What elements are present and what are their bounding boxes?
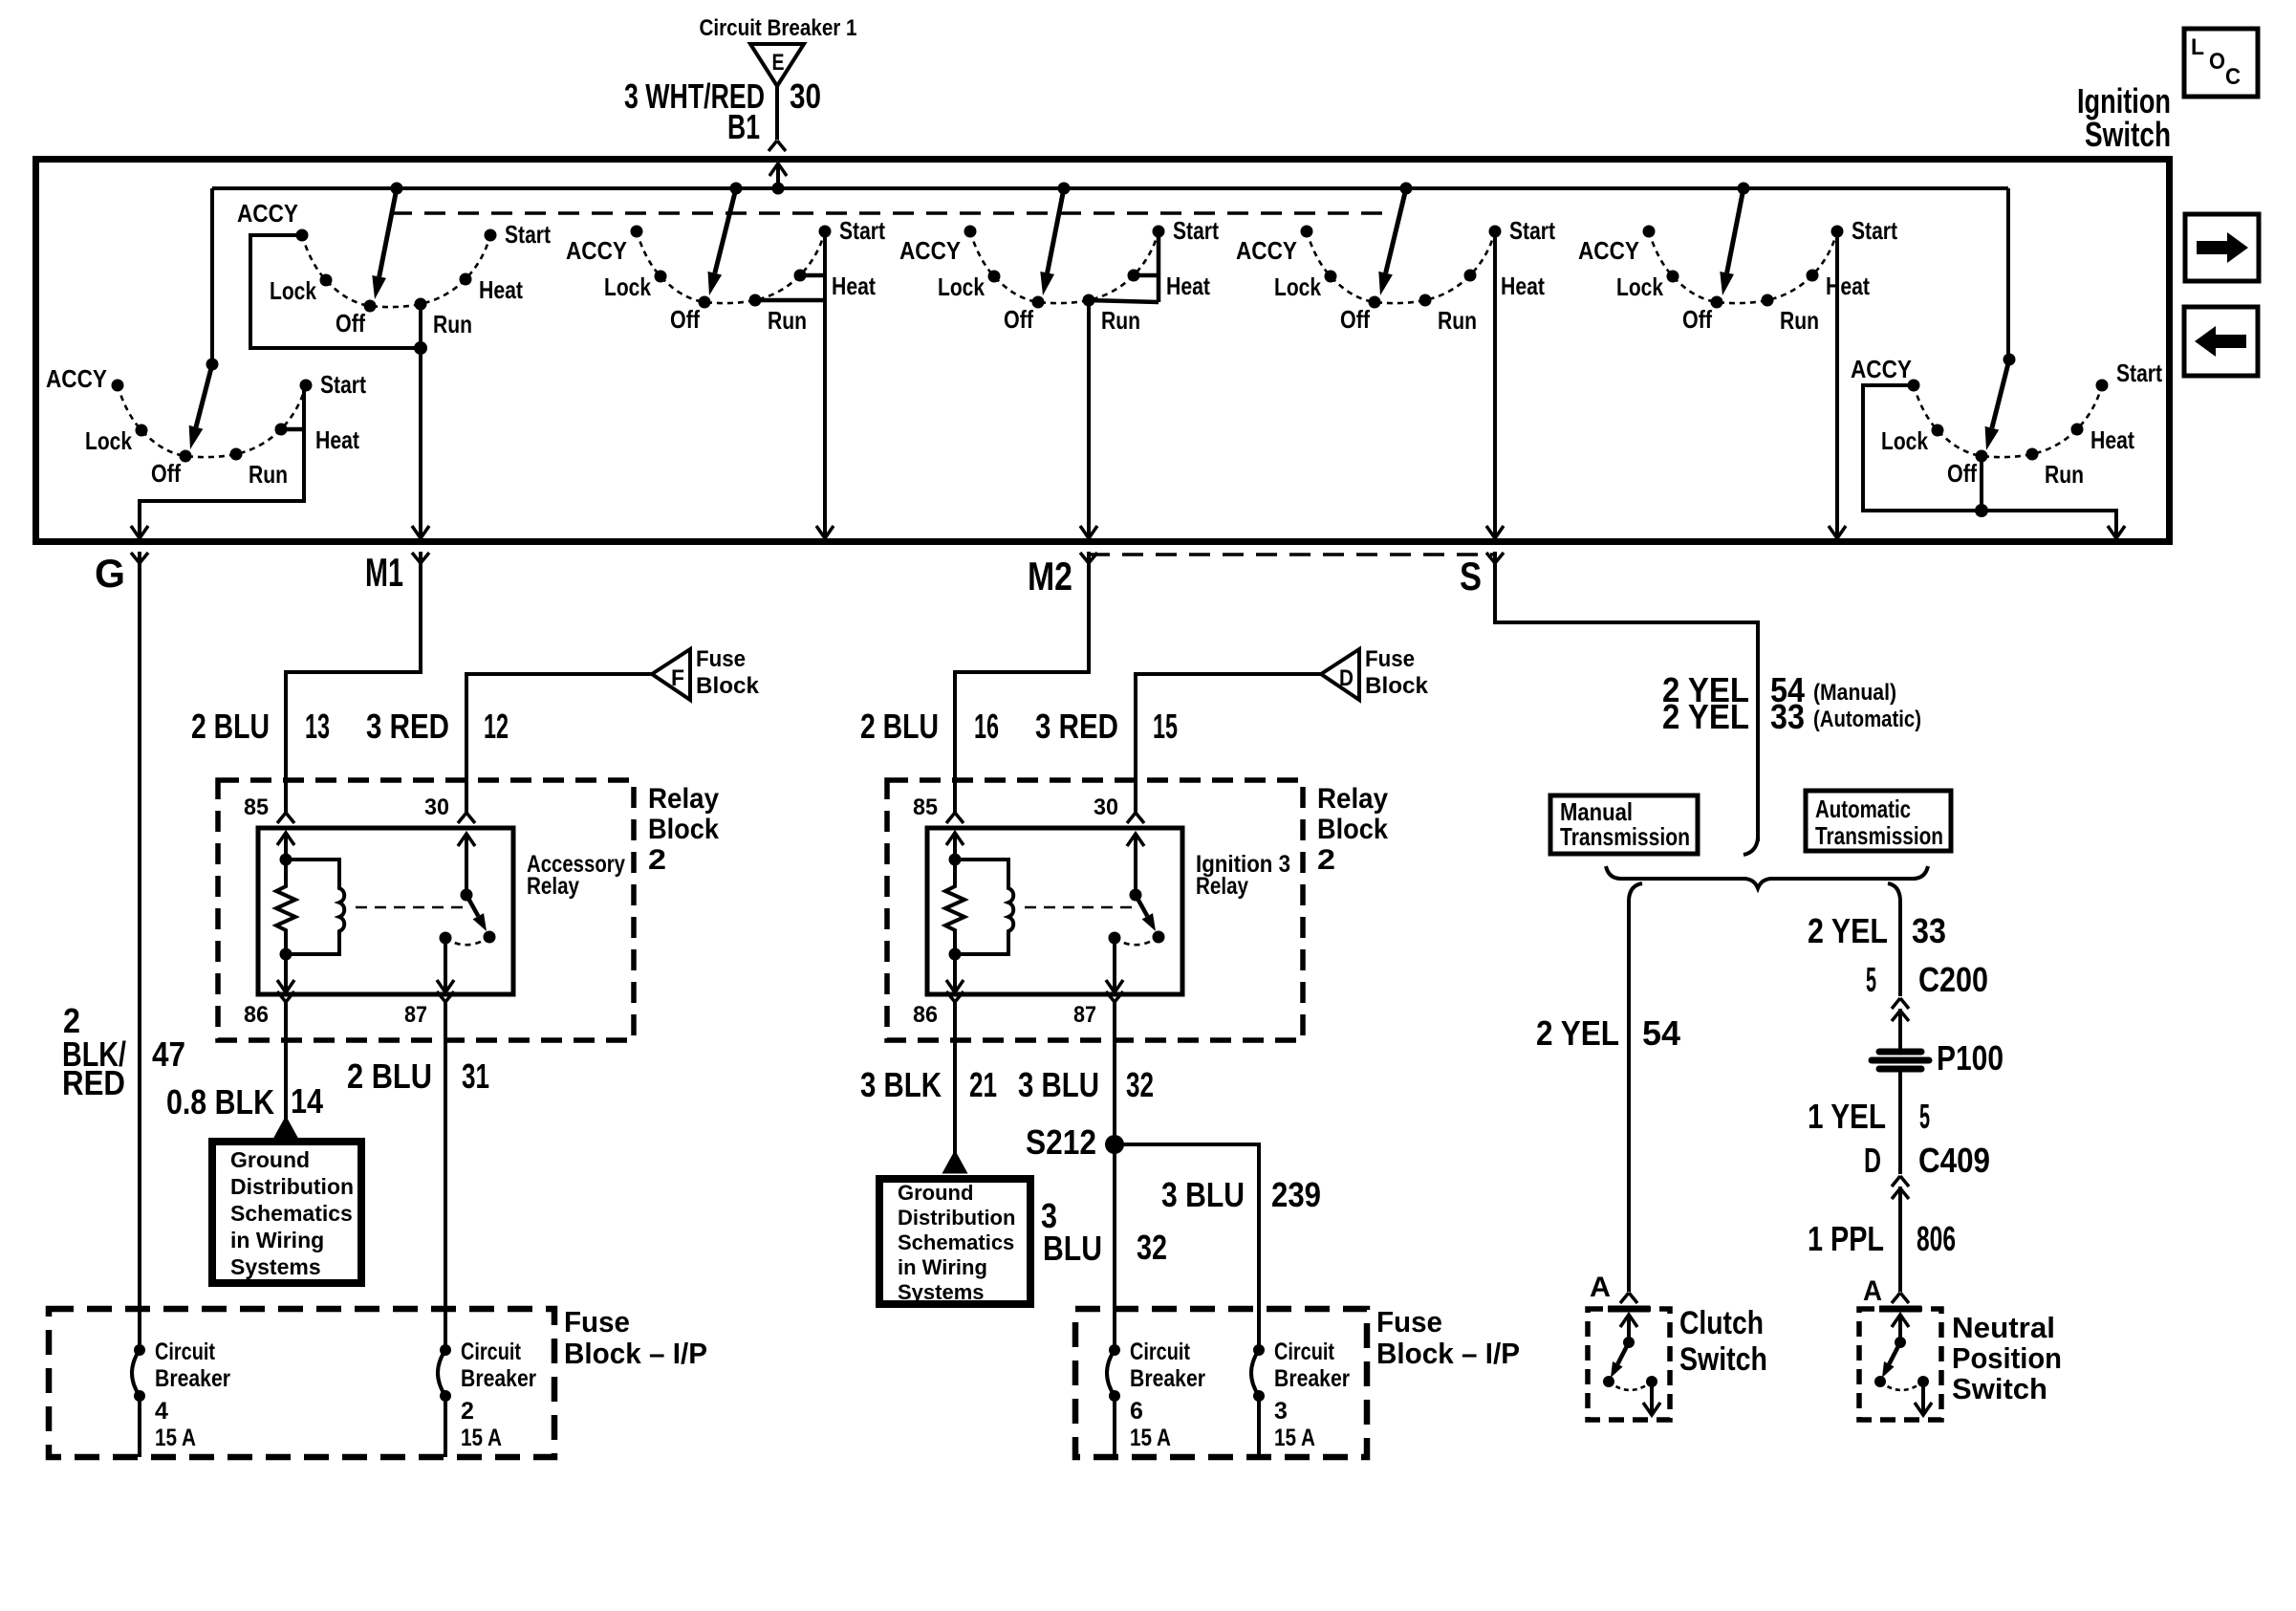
svg-text:Run: Run <box>1438 306 1477 335</box>
switch 4 bottom tick to run <box>1089 300 1159 302</box>
svg-text:in Wiring: in Wiring <box>898 1255 987 1279</box>
svg-text:15 A: 15 A <box>155 1425 196 1451</box>
svg-text:F: F <box>671 665 684 691</box>
svg-text:30: 30 <box>424 795 449 820</box>
svg-text:Relay: Relay <box>648 783 719 815</box>
svg-text:Block: Block <box>1317 814 1388 845</box>
svg-text:Fuse: Fuse <box>564 1305 630 1339</box>
switch 5 dashed arc <box>1307 231 1495 303</box>
svg-text:Relay: Relay <box>1196 873 1248 900</box>
svg-text:Fuse: Fuse <box>696 646 746 672</box>
wire 86b to ground <box>953 1002 957 1154</box>
svg-text:M2: M2 <box>1028 554 1072 599</box>
svg-text:15 A: 15 A <box>1274 1425 1315 1451</box>
ignition 3 relay pin 30 chevron and label <box>1127 813 1144 823</box>
switch 7 output arrowhead <box>2108 526 2125 538</box>
svg-text:Heat: Heat <box>2090 425 2134 454</box>
switch 2 position dots <box>296 229 497 313</box>
switch 6 wiper arrow source dot <box>1738 183 1750 195</box>
svg-text:Systems: Systems <box>898 1280 985 1304</box>
svg-text:A: A <box>1590 1272 1611 1303</box>
wire B1 into box <box>776 163 780 188</box>
ignition 3 relay inductor element <box>955 860 1013 954</box>
circuit breaker 2 breaker contact dots <box>440 1344 451 1356</box>
svg-text:ACCY: ACCY <box>1851 355 1912 383</box>
accessory relay coil feed arrow <box>277 833 294 845</box>
circuit breaker 4 breaker arc <box>132 1350 140 1396</box>
LOC reference box <box>2184 29 2258 97</box>
switch 3 run tick wire <box>755 298 825 303</box>
accessory relay relay block dashed box <box>218 780 634 1040</box>
svg-text:Off: Off <box>1682 305 1712 334</box>
svg-text:47: 47 <box>152 1034 185 1074</box>
svg-text:Start: Start <box>1852 216 1897 245</box>
ground triangle right <box>944 1153 965 1172</box>
ignition 3 relay coil to pin 86 arrow <box>953 954 957 992</box>
brace <box>1606 866 1928 888</box>
svg-text:Off: Off <box>1947 459 1977 488</box>
switch 5 start output wire <box>1493 231 1497 538</box>
svg-text:87: 87 <box>404 1002 427 1028</box>
accessory relay contact blade <box>466 895 478 916</box>
svg-text:Heat: Heat <box>479 275 523 304</box>
svg-text:Distribution: Distribution <box>230 1174 354 1199</box>
svg-text:Heat: Heat <box>315 425 359 454</box>
clutch branch hook <box>1629 883 1642 900</box>
svg-text:Fuse: Fuse <box>1376 1305 1442 1339</box>
neutral wire lower <box>1898 1186 1902 1292</box>
switch 3 position dots <box>631 226 832 309</box>
accessory relay mechanical dashed link <box>356 906 463 909</box>
svg-text:86: 86 <box>244 1002 269 1028</box>
svg-text:Start: Start <box>320 370 366 399</box>
svg-text:33: 33 <box>1912 911 1946 950</box>
svg-text:3 RED: 3 RED <box>366 707 449 746</box>
neutral position switch dashed box <box>1859 1309 1941 1420</box>
switch 7 position dots <box>1908 380 2109 463</box>
switch 2 wiper arrow source dot <box>391 183 403 195</box>
svg-text:Ground: Ground <box>230 1147 310 1172</box>
svg-text:Block – I/P: Block – I/P <box>1376 1337 1520 1370</box>
switch 1 start output wire <box>140 385 304 538</box>
switch 3 wiper arrow source dot <box>730 183 743 195</box>
switch 6 position dots <box>1643 226 1844 309</box>
svg-text:A: A <box>1863 1275 1882 1307</box>
svg-text:15 A: 15 A <box>1130 1425 1171 1451</box>
accessory relay pin 85 chevron and label <box>277 813 294 823</box>
circuit breaker 4 breaker contact dots <box>134 1344 145 1356</box>
ignition 3 relay contact feed arrow <box>1127 834 1144 846</box>
switch 6 wiper arrow <box>1727 188 1744 273</box>
svg-text:Ground: Ground <box>898 1181 973 1205</box>
svg-text:Neutral: Neutral <box>1952 1311 2055 1344</box>
neutral wire below P100 <box>1898 1070 1902 1174</box>
svg-text:Circuit: Circuit <box>1274 1339 1335 1365</box>
svg-text:Switch: Switch <box>1679 1341 1767 1378</box>
accessory relay coil bottom junction dot <box>280 948 292 961</box>
switch 2 accy loop wire <box>250 235 421 348</box>
switch 2 run output wire <box>419 304 422 538</box>
svg-text:1 YEL: 1 YEL <box>1808 1097 1886 1136</box>
wire fuse D to relay 30 <box>1136 674 1321 813</box>
accessory relay fixed contact dot <box>440 932 452 945</box>
svg-text:15 A: 15 A <box>461 1425 502 1451</box>
switch 7 wiper arrow source dot <box>2004 354 2016 366</box>
svg-text:L: L <box>2191 34 2204 60</box>
svg-text:D: D <box>1864 1141 1881 1180</box>
circuit breaker 6 breaker wire below <box>1113 1396 1116 1457</box>
switch 7 wiper arrow <box>1992 359 2009 428</box>
svg-text:Lock: Lock <box>604 272 651 301</box>
svg-text:Start: Start <box>1509 216 1555 245</box>
wire M2 down <box>955 552 1089 813</box>
svg-text:Position: Position <box>1952 1341 2062 1375</box>
svg-text:E: E <box>772 50 785 76</box>
switch 4 heat tick wire <box>1134 273 1159 278</box>
terminal M1 chevron <box>412 553 429 563</box>
svg-text:O: O <box>2209 49 2225 75</box>
svg-text:2: 2 <box>648 844 666 876</box>
svg-text:Lock: Lock <box>1616 272 1663 301</box>
fuse block D triangle <box>1321 649 1359 700</box>
left-arrow box <box>2184 307 2258 376</box>
ignition 3 relay relay block dashed box <box>887 780 1303 1040</box>
svg-text:P100: P100 <box>1937 1038 2004 1078</box>
svg-text:14: 14 <box>291 1081 323 1121</box>
svg-text:ACCY: ACCY <box>1578 236 1639 265</box>
switch 1 dashed arc <box>118 385 306 457</box>
neutral blade <box>1889 1342 1900 1364</box>
switch 3 dashed arc <box>637 231 825 303</box>
svg-text:3 BLU: 3 BLU <box>1018 1065 1099 1104</box>
switch 2 wiper arrow <box>379 188 397 277</box>
splice S212 dot <box>1105 1135 1124 1154</box>
svg-text:85: 85 <box>913 795 938 820</box>
switch 4 position dots <box>964 226 1165 309</box>
wire 87b down to S212 <box>1113 1002 1116 1144</box>
svg-text:Off: Off <box>1340 305 1370 334</box>
clutch internal feed arrow <box>1620 1315 1637 1327</box>
switch 4 run output wire <box>1087 300 1091 538</box>
switch 4 output arrowhead to M2 <box>1080 526 1097 538</box>
switch 1 output arrowhead to G <box>131 526 148 538</box>
svg-text:Block – I/P: Block – I/P <box>564 1337 707 1370</box>
svg-text:5: 5 <box>1866 960 1876 999</box>
svg-text:54: 54 <box>1642 1013 1680 1053</box>
circuit breaker 6 breaker contact dots <box>1109 1344 1120 1356</box>
ignition 3 relay pin 86 chevron and label <box>946 991 964 1002</box>
terminal S chevron <box>1486 553 1504 563</box>
svg-text:Lock: Lock <box>938 272 985 301</box>
accessory relay relay box <box>258 828 513 994</box>
svg-text:Start: Start <box>839 216 885 245</box>
wire 87 down to CB2 <box>444 1002 447 1350</box>
wire S212 down to CB6 <box>1113 1145 1116 1350</box>
svg-text:4: 4 <box>155 1398 168 1425</box>
svg-text:15: 15 <box>1153 707 1178 746</box>
svg-text:Off: Off <box>151 459 181 488</box>
svg-text:2 BLU: 2 BLU <box>860 707 939 746</box>
svg-text:C200: C200 <box>1918 960 1988 999</box>
neutral fixed contact dot <box>1917 1376 1929 1387</box>
svg-text:Lock: Lock <box>85 426 132 455</box>
right-arrow box <box>2185 214 2259 281</box>
switch 3 output arrowhead <box>816 526 834 538</box>
ignition 3 relay pin 85 chevron and label <box>946 813 964 823</box>
svg-text:S212: S212 <box>1026 1122 1096 1162</box>
svg-text:3: 3 <box>1274 1398 1288 1425</box>
circuit breaker 3 breaker wire below <box>1257 1396 1261 1457</box>
neutral internal feed arrow <box>1892 1315 1909 1327</box>
svg-text:Automatic: Automatic <box>1815 795 1911 823</box>
switch 5 output arrowhead to S <box>1486 526 1504 538</box>
bus wire <box>212 186 2008 190</box>
neutral branch hook <box>1888 883 1900 900</box>
svg-text:G: G <box>95 551 125 596</box>
svg-text:Circuit: Circuit <box>461 1339 522 1365</box>
svg-text:Block: Block <box>1365 673 1429 699</box>
svg-text:(Manual): (Manual) <box>1813 680 1896 706</box>
ignition 3 relay coil feed arrow <box>946 833 964 845</box>
svg-text:in Wiring: in Wiring <box>230 1228 324 1252</box>
bus left drop wire <box>210 188 214 364</box>
clutch terminal chevron <box>1620 1293 1637 1303</box>
ignition 3 relay contact blade <box>1136 895 1147 916</box>
svg-text:Start: Start <box>2116 359 2162 387</box>
svg-text:Breaker: Breaker <box>1274 1365 1350 1392</box>
ignition 3 relay relay box <box>927 828 1182 994</box>
svg-text:31: 31 <box>462 1056 489 1096</box>
clutch output arrow <box>1650 1382 1654 1415</box>
switch 2 accy loop junction dot <box>414 341 427 355</box>
clutch switch dashed box <box>1588 1309 1670 1420</box>
clutch blade <box>1617 1342 1629 1364</box>
accessory relay contact pivot dot <box>461 889 473 902</box>
svg-text:Circuit Breaker 1: Circuit Breaker 1 <box>700 15 857 41</box>
svg-text:B1: B1 <box>727 107 760 146</box>
svg-text:(Automatic): (Automatic) <box>1813 707 1921 732</box>
circuit breaker E triangle <box>750 44 804 86</box>
svg-text:Fuse: Fuse <box>1365 646 1415 672</box>
switch 4 dashed arc <box>970 231 1159 303</box>
switch 6 dashed arc <box>1649 231 1837 303</box>
switch 5 wiper arrow source dot <box>1400 183 1413 195</box>
connector C409 chevrons <box>1892 1176 1909 1186</box>
svg-text:Relay: Relay <box>527 873 579 900</box>
svg-text:2 BLU: 2 BLU <box>347 1056 432 1096</box>
svg-text:Relay: Relay <box>1317 783 1388 815</box>
bus right drop wire <box>2006 188 2010 359</box>
svg-text:Block: Block <box>696 673 760 699</box>
svg-text:Circuit: Circuit <box>155 1339 216 1365</box>
svg-text:Lock: Lock <box>1881 426 1928 455</box>
svg-text:Switch: Switch <box>2085 115 2171 154</box>
ignition 3 relay contact pivot dot <box>1130 889 1142 902</box>
svg-text:BLU: BLU <box>1043 1229 1102 1268</box>
wire S end hook <box>1744 838 1758 855</box>
ignition 3 relay contact travel dashed arc <box>1115 937 1159 945</box>
switch 7 accy loop wire <box>1863 385 2116 538</box>
manual transmission box <box>1550 795 1698 854</box>
clutch pivot dot <box>1623 1337 1635 1348</box>
ignition 3 relay mechanical dashed link <box>1025 906 1132 909</box>
svg-text:Heat: Heat <box>1826 272 1870 300</box>
ignition 3 relay resistor element <box>945 860 964 954</box>
svg-text:2: 2 <box>461 1398 474 1425</box>
svg-text:D: D <box>1339 665 1354 691</box>
svg-text:3 BLK: 3 BLK <box>860 1065 942 1104</box>
svg-text:Start: Start <box>505 220 551 249</box>
circuit breaker 4 breaker wire below <box>138 1396 141 1457</box>
svg-text:30: 30 <box>790 76 821 116</box>
svg-text:ACCY: ACCY <box>237 199 298 228</box>
left arrow icon <box>2195 326 2246 357</box>
svg-text:RED: RED <box>62 1063 125 1102</box>
accessory relay resistor element <box>276 860 295 954</box>
wire S212 branch <box>1115 1144 1259 1350</box>
switch 4 wiper arrow <box>1048 188 1064 273</box>
switch 1 heat tick wire <box>281 427 304 432</box>
wire 86 to ground <box>284 1002 288 1120</box>
circuit breaker 3 breaker arc <box>1251 1350 1259 1396</box>
svg-text:Systems: Systems <box>230 1254 321 1279</box>
svg-text:Circuit: Circuit <box>1130 1339 1191 1365</box>
dashed linkage line <box>391 211 1389 215</box>
svg-text:Off: Off <box>336 309 365 337</box>
connector C200 chevrons <box>1892 998 1909 1009</box>
svg-text:Run: Run <box>1780 306 1819 335</box>
wire M1 down <box>286 552 421 813</box>
svg-text:85: 85 <box>244 795 269 820</box>
ignition 3 relay contact to pin 87 arrow <box>1113 938 1116 992</box>
accessory relay pin 86 chevron and label <box>277 991 294 1002</box>
wire G down <box>138 552 141 1350</box>
switch 1 wiper arrow source dot <box>206 359 219 371</box>
fuse block F triangle <box>652 649 690 700</box>
svg-text:5: 5 <box>1919 1097 1930 1136</box>
svg-text:Lock: Lock <box>270 276 316 305</box>
svg-text:1 PPL: 1 PPL <box>1808 1219 1884 1258</box>
svg-text:Start: Start <box>1173 216 1219 245</box>
circuit breaker 6 breaker arc <box>1107 1350 1115 1396</box>
svg-text:86: 86 <box>913 1002 938 1028</box>
ground distribution box right <box>879 1179 1030 1304</box>
svg-text:Breaker: Breaker <box>461 1365 536 1392</box>
svg-text:C: C <box>2225 64 2241 90</box>
svg-text:16: 16 <box>974 707 999 746</box>
svg-text:Transmission: Transmission <box>1815 821 1943 850</box>
wire B1 from breaker <box>775 86 779 140</box>
svg-text:12: 12 <box>484 707 509 746</box>
switch 1 wiper arrow <box>196 364 212 427</box>
switch 7 off drop wire <box>1980 456 1983 511</box>
switch 1 position dots <box>112 380 313 463</box>
ignition switch outer box <box>36 160 2170 542</box>
ground distribution box left <box>212 1142 361 1283</box>
svg-text:Run: Run <box>249 460 288 489</box>
switch 2 dashed arc <box>302 235 490 307</box>
accessory relay inductor element <box>286 860 344 954</box>
clutch fixed contact dot <box>1646 1376 1657 1387</box>
svg-text:Schematics: Schematics <box>230 1201 353 1226</box>
svg-text:C409: C409 <box>1918 1141 1990 1180</box>
switch 3 start output wire <box>823 231 827 538</box>
ignition 3 relay coil top junction dot <box>949 854 962 866</box>
svg-text:2: 2 <box>1317 844 1335 876</box>
svg-text:13: 13 <box>305 707 330 746</box>
fuse block IP left dashed box <box>49 1309 554 1457</box>
switch 3 heat tick wire <box>800 273 825 278</box>
svg-text:32: 32 <box>1137 1228 1167 1267</box>
neutral travel dashed arc <box>1880 1382 1923 1390</box>
svg-text:6: 6 <box>1130 1398 1143 1425</box>
svg-text:Breaker: Breaker <box>155 1365 230 1392</box>
svg-text:Heat: Heat <box>1166 272 1210 300</box>
svg-text:2 YEL: 2 YEL <box>1536 1013 1619 1053</box>
svg-text:Run: Run <box>768 306 807 335</box>
accessory relay contact travel dashed arc <box>445 937 489 945</box>
accessory relay pin 87 chevron and label <box>437 991 454 1002</box>
svg-text:2 YEL: 2 YEL <box>1808 911 1888 950</box>
switch 7 loop junction dot <box>1975 504 1988 517</box>
svg-text:Off: Off <box>670 305 700 334</box>
ignition 3 relay pin 87 chevron and label <box>1106 991 1123 1002</box>
svg-text:Off: Off <box>1004 305 1033 334</box>
svg-text:33: 33 <box>1770 697 1805 736</box>
switch 2 output arrowhead to M1 <box>412 526 429 538</box>
automatic transmission box <box>1806 791 1951 851</box>
svg-text:Heat: Heat <box>832 272 876 300</box>
neutral branch wire upper <box>1898 900 1902 996</box>
accessory relay coil top junction dot <box>280 854 292 866</box>
neutral output arrow <box>1921 1382 1925 1415</box>
neutral terminal chevron <box>1892 1293 1909 1303</box>
ground triangle left <box>275 1119 296 1138</box>
right arrow icon <box>2197 232 2248 263</box>
switch 5 wiper arrow <box>1386 188 1406 273</box>
neutral wire to P100 <box>1898 1009 1902 1049</box>
svg-text:ACCY: ACCY <box>1236 236 1297 265</box>
svg-text:21: 21 <box>969 1065 997 1104</box>
accessory relay coil to pin 86 arrow <box>284 954 288 992</box>
circuit breaker 3 breaker contact dots <box>1253 1344 1265 1356</box>
svg-text:Heat: Heat <box>1501 272 1545 300</box>
svg-text:3 RED: 3 RED <box>1035 707 1118 746</box>
accessory relay pin 30 chevron and label <box>458 813 475 823</box>
svg-text:239: 239 <box>1271 1175 1321 1214</box>
wire S down and across <box>1495 552 1758 841</box>
neutral box top entry segment <box>1879 1306 1921 1313</box>
svg-text:ACCY: ACCY <box>46 364 107 393</box>
svg-text:Block: Block <box>648 814 719 845</box>
svg-text:ACCY: ACCY <box>899 236 961 265</box>
svg-text:Distribution: Distribution <box>898 1206 1015 1230</box>
switch 7 dashed arc <box>1914 385 2102 457</box>
svg-text:S: S <box>1460 554 1482 599</box>
svg-text:Switch: Switch <box>1952 1372 2047 1405</box>
switch 3 wiper arrow <box>715 188 736 273</box>
svg-text:ACCY: ACCY <box>566 236 627 265</box>
neutral pivot dot <box>1895 1337 1906 1348</box>
svg-text:30: 30 <box>1094 795 1118 820</box>
svg-text:3 BLU: 3 BLU <box>1161 1175 1245 1214</box>
svg-text:M1: M1 <box>365 550 403 595</box>
switch 4 wiper arrow source dot <box>1058 183 1071 195</box>
svg-text:Schematics: Schematics <box>898 1230 1014 1254</box>
dashed link M2-S <box>1089 553 1495 556</box>
svg-text:Breaker: Breaker <box>1130 1365 1205 1392</box>
ignition 3 relay fixed contact dot <box>1109 932 1121 945</box>
